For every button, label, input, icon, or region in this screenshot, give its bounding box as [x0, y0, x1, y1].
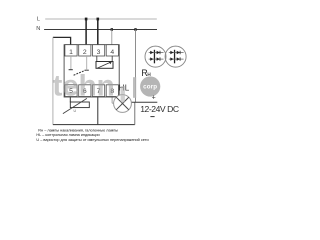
- svg-text:1: 1: [69, 49, 73, 56]
- svg-text:3: 3: [97, 49, 101, 56]
- svg-text:HL – контрольная лампа индикац: HL – контрольная лампа индикации: [36, 133, 99, 137]
- svg-text:+: +: [152, 94, 156, 101]
- svg-text:corp: corp: [143, 84, 157, 91]
- svg-text:4: 4: [110, 49, 114, 56]
- svg-text:L: L: [37, 16, 40, 22]
- svg-text:12-24V DC: 12-24V DC: [140, 104, 179, 114]
- svg-text:N: N: [36, 26, 40, 32]
- svg-text:tehn: tehn: [52, 70, 114, 103]
- svg-text:U – варистор для защиты от имп: U – варистор для защиты от импульсных пе…: [36, 138, 148, 142]
- svg-text:2: 2: [83, 49, 87, 56]
